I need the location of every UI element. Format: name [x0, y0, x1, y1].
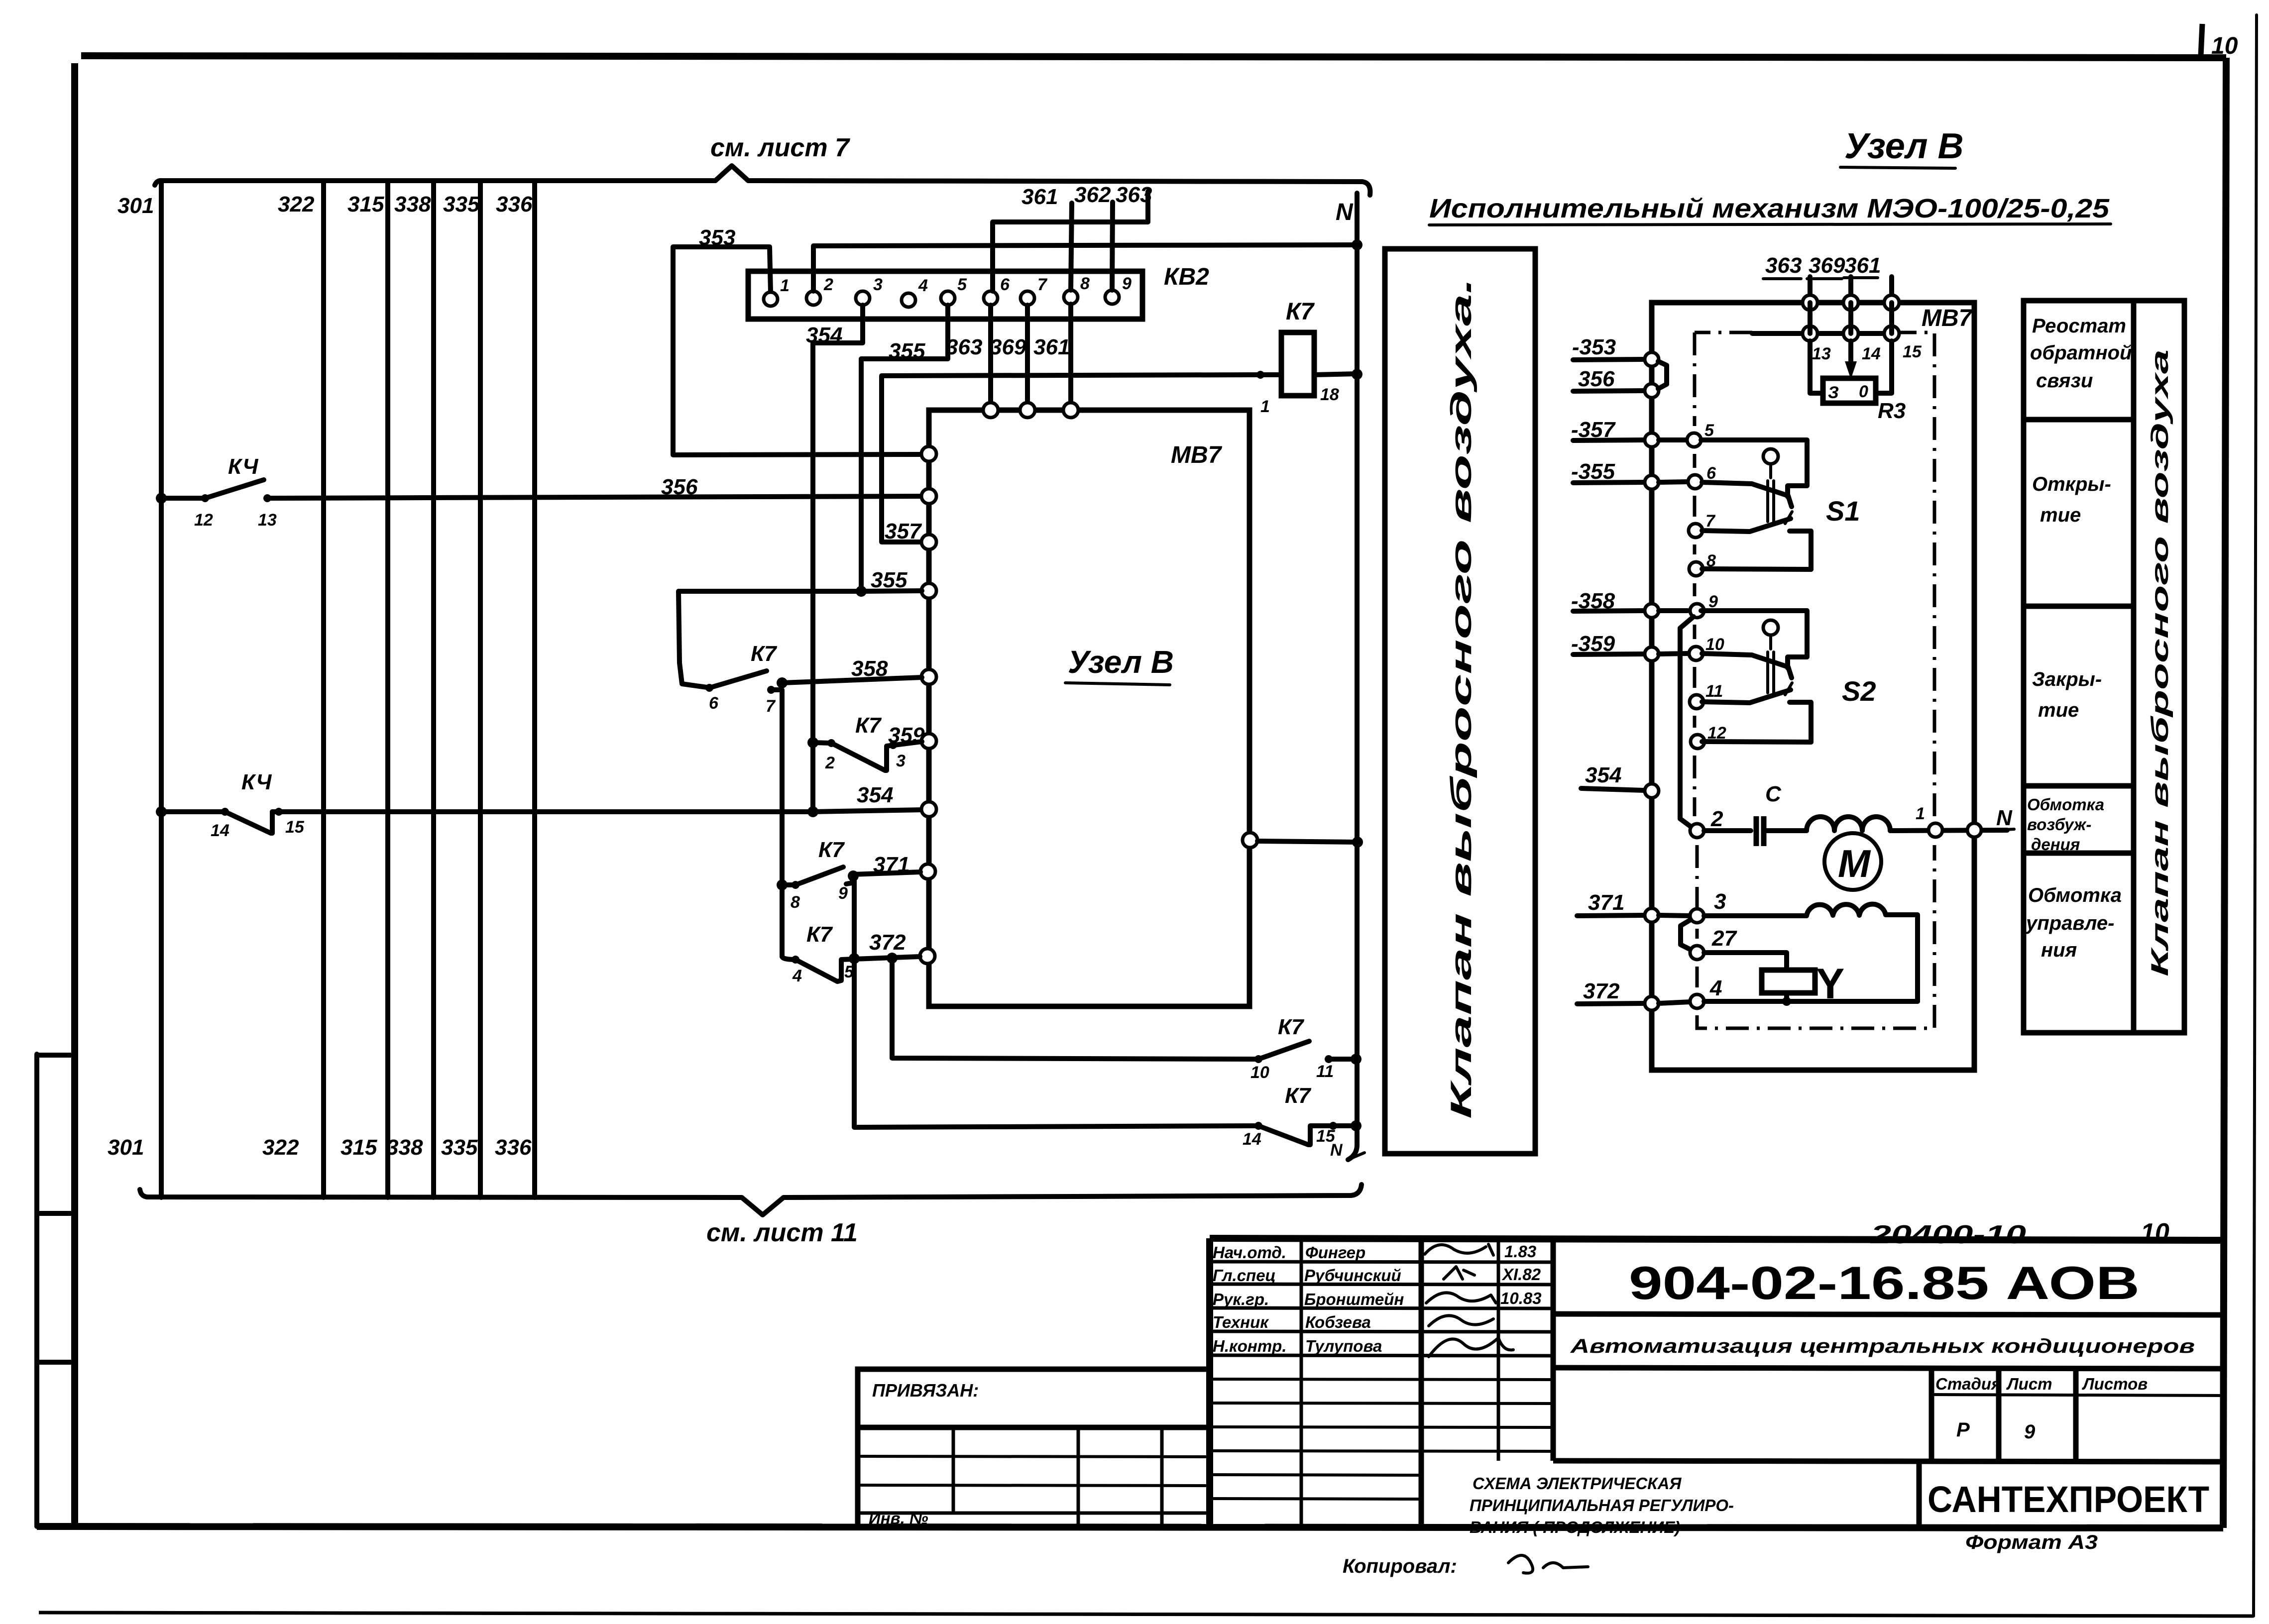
title block signature grid columns: [1301, 1238, 1553, 1527]
svg-text:6: 6: [709, 694, 719, 713]
svg-text:322: 322: [278, 192, 315, 217]
svg-text:11: 11: [1705, 682, 1723, 701]
wire 369 from KB2 terminal 7 down to MB7: [1025, 305, 1030, 409]
svg-text:4: 4: [792, 967, 802, 985]
legend text Обмотка возбуждения: [2027, 795, 2104, 854]
wire 357 from MB7 terminal up and right to relay K7 pin 1: [882, 375, 1260, 543]
wire row 13-14-15 on dash-dot top edge: [1752, 303, 1922, 363]
svg-text:315: 315: [347, 192, 384, 217]
svg-text:N: N: [1330, 1141, 1343, 1160]
brace "см. лист 7": [155, 133, 1370, 195]
signature row Гл.спец Рубчинский: [1213, 1265, 1541, 1285]
svg-text:5: 5: [844, 963, 854, 981]
svg-text:К7: К7: [806, 922, 833, 947]
motor M: [1824, 833, 1881, 890]
wire from KB2 terminal 2 to N: [813, 245, 1357, 291]
KB2 terminal 7: [1021, 275, 1048, 305]
cable stub 371: [1577, 890, 1690, 922]
svg-text:см. лист 7: см. лист 7: [710, 133, 850, 162]
wire 358: [777, 656, 922, 688]
svg-text:Лист: Лист: [2006, 1375, 2052, 1393]
note Копировал: [1343, 1555, 1588, 1577]
svg-text:301: 301: [117, 194, 154, 218]
svg-text:9: 9: [1122, 274, 1132, 293]
MB7 terminal 353: [921, 446, 936, 461]
legend text Закрытие: [2032, 668, 2102, 721]
wires 363 369 361 stubs above mechanism: [1763, 253, 1892, 299]
switch pin 7: [1689, 512, 1716, 538]
svg-text:369: 369: [1809, 253, 1845, 278]
svg-text:356: 356: [1578, 367, 1615, 391]
svg-text:336: 336: [496, 192, 533, 217]
svg-text:Клапан выбросного воздуха.: Клапан выбросного воздуха.: [1445, 278, 1477, 1119]
KB2 terminal 4: [902, 276, 928, 307]
cable stub -359: [1571, 632, 1688, 661]
svg-text:4: 4: [1709, 976, 1722, 1000]
contact K7 (pins 10-11) lower: [1250, 1015, 1356, 1082]
svg-text:Клапан выбросного воздуха: Клапан выбросного воздуха: [2147, 349, 2173, 976]
limit switch S2: [1701, 611, 1876, 742]
svg-text:5: 5: [957, 275, 967, 294]
KB2 terminal 1: [764, 276, 790, 306]
svg-text:Исполнительный механизм МЭО-10: Исполнительный механизм МЭО-100/25-0,25: [1429, 194, 2110, 223]
brake electromagnet Y: [1762, 960, 1844, 1008]
bus rail 335: [478, 182, 483, 1197]
bus rail 338: [431, 182, 436, 1197]
svg-text:8: 8: [791, 893, 800, 912]
svg-text:354: 354: [857, 783, 893, 807]
wire 355 from KB2 terminal 5: [861, 305, 948, 591]
svg-text:КЧ: КЧ: [228, 454, 258, 479]
svg-text:МВ7: МВ7: [1171, 442, 1223, 468]
svg-text:связи: связи: [2036, 370, 2093, 392]
KB2 terminal 2: [806, 275, 833, 305]
svg-text:ния: ния: [2041, 939, 2077, 961]
svg-text:1.83: 1.83: [1504, 1242, 1536, 1261]
svg-text:9: 9: [2024, 1421, 2036, 1443]
svg-text:управле-: управле-: [2025, 912, 2114, 934]
switch pin 11: [1690, 682, 1723, 709]
MB7 terminal 358: [921, 669, 936, 684]
left margin column with fold ticks: [37, 1054, 74, 1526]
bus rail 315: [385, 182, 390, 1197]
MB7 right edge terminal to N: [1243, 833, 1358, 848]
svg-text:S2: S2: [1842, 675, 1876, 707]
node 1: [1916, 804, 1942, 837]
sheet number 10 top right with tick: [2201, 24, 2238, 59]
top wire 361 with hook to terminal 6: [993, 185, 1148, 291]
svg-text:904-02-16.85 АОВ: 904-02-16.85 АОВ: [1629, 1257, 2140, 1309]
KB2 terminal 6: [984, 275, 1010, 305]
svg-text:7: 7: [1037, 275, 1048, 294]
svg-text:дения: дения: [2031, 835, 2080, 854]
schema name cell: [1470, 1461, 2223, 1536]
svg-text:356: 356: [661, 475, 698, 499]
svg-text:Закры-: Закры-: [2032, 668, 2102, 690]
MB7 terminal 354: [921, 802, 936, 817]
rail labels bottom: [108, 1135, 532, 1160]
svg-text:САНТЕХПРОЕКТ: САНТЕХПРОЕКТ: [1928, 1479, 2209, 1520]
labels 363 369 361 under KB2: [946, 335, 1070, 359]
svg-text:Нач.отд.: Нач.отд.: [1213, 1243, 1286, 1262]
svg-text:N: N: [1336, 199, 1354, 225]
svg-text:7: 7: [766, 697, 776, 716]
signature row Н.контр. Тулупова: [1213, 1337, 1513, 1357]
cable stub 354: [1581, 763, 1659, 798]
svg-text:ПРИНЦИПИАЛЬНАЯ РЕГУЛИРО-: ПРИНЦИПИАЛЬНАЯ РЕГУЛИРО-: [1470, 1496, 1734, 1515]
svg-text:XI.82: XI.82: [1501, 1265, 1541, 1284]
Привязан box: [858, 1369, 1210, 1527]
wire from winding to bottom: [1886, 915, 1918, 1001]
svg-text:20400-10: 20400-10: [1870, 1220, 2027, 1249]
motor terminal 4: [1690, 976, 1918, 1008]
svg-text:Бронштейн: Бронштейн: [1304, 1290, 1404, 1308]
svg-text:9: 9: [838, 884, 848, 903]
switch pin 8: [1689, 551, 1716, 576]
svg-text:11: 11: [1316, 1062, 1334, 1081]
svg-text:возбуж-: возбуж-: [2027, 815, 2091, 834]
svg-text:Стадия: Стадия: [1935, 1375, 2001, 1393]
svg-text:ВАНИЯ ( ПРОДОЛЖЕНИЕ): ВАНИЯ ( ПРОДОЛЖЕНИЕ): [1470, 1518, 1680, 1536]
limit switch S1: [1701, 440, 1860, 569]
MB7 top terminals (363/369/361): [983, 403, 1078, 418]
svg-text:4: 4: [918, 276, 928, 295]
svg-text:10: 10: [1705, 635, 1724, 654]
svg-text:К7: К7: [1285, 1083, 1312, 1108]
svg-text:тие: тие: [2040, 504, 2081, 526]
cable stub 356: [1573, 367, 1659, 398]
svg-text:R3: R3: [1878, 399, 1906, 423]
title block outer: [1210, 1238, 2223, 1527]
rheostat R3 with wiper arrow from 14: [1810, 341, 1906, 423]
svg-text:335: 335: [441, 1135, 478, 1160]
title Узел В (right section): [1840, 126, 1964, 168]
svg-text:13: 13: [258, 511, 277, 530]
signature row Нач.отд Фингер: [1213, 1242, 1536, 1262]
contact K7 (pins 2-3) on wire 359: [807, 713, 925, 772]
top wire 363 to terminal 9: [1112, 183, 1152, 290]
switch pin 9: [1690, 592, 1718, 618]
svg-text:1: 1: [780, 276, 790, 295]
svg-text:363: 363: [1116, 183, 1152, 207]
svg-text:372: 372: [1583, 979, 1620, 1003]
svg-text:Инв. №: Инв. №: [869, 1509, 928, 1527]
terminal block KB2: [748, 264, 1209, 319]
contact K7 (pins 8-9) on wire 371: [777, 838, 1257, 1127]
MB7 terminal 371: [920, 864, 935, 879]
svg-text:372: 372: [869, 930, 906, 955]
switch pin 10: [1689, 635, 1724, 660]
KB2 terminal 5: [941, 275, 967, 305]
wire 355 into MB7 with junction: [856, 568, 922, 597]
svg-text:315: 315: [340, 1135, 377, 1160]
title block signature rows: [1210, 1262, 1553, 1499]
svg-text:Р: Р: [1956, 1419, 1970, 1441]
svg-text:Обмотка: Обмотка: [2027, 795, 2104, 814]
cable stub -353: [1572, 335, 1659, 366]
svg-text:2: 2: [823, 275, 833, 294]
contact K7 (pins 4-5) on wire 372: [782, 922, 1257, 1059]
signature row Рук.гр. Бронштейн: [1213, 1289, 1542, 1308]
junction circles on mechanism box top edge: [1803, 295, 1899, 310]
svg-text:1: 1: [1260, 397, 1270, 416]
svg-text:336: 336: [495, 1135, 532, 1160]
svg-text:Обмотка: Обмотка: [2028, 884, 2122, 906]
svg-text:К7: К7: [855, 713, 882, 738]
svg-text:361: 361: [1021, 185, 1058, 209]
svg-text:362: 362: [1074, 183, 1111, 207]
outer paper border right: [2254, 15, 2257, 1616]
svg-text:З: З: [1828, 383, 1839, 402]
svg-text:338: 338: [386, 1135, 423, 1160]
control winding (coil): [1807, 904, 1886, 916]
Стадия Лист Листов header: [1931, 1368, 2223, 1461]
KB2 terminal 8: [1064, 274, 1090, 304]
svg-text:Формат А3: Формат А3: [1965, 1531, 2098, 1553]
contact K7 (pins 6-7): [679, 591, 861, 957]
svg-text:Рук.гр.: Рук.гр.: [1213, 1290, 1269, 1308]
legend text Открытие: [2032, 473, 2111, 526]
svg-text:К7: К7: [1278, 1015, 1305, 1039]
right legend table: [2024, 301, 2184, 1033]
cable stub 372: [1577, 979, 1690, 1010]
svg-text:361: 361: [1033, 335, 1070, 359]
wire 363 from KB2 terminal 6 down to MB7: [988, 305, 993, 409]
mechanism outer box MB7: [1652, 303, 1974, 1070]
svg-text:Автоматизация центральных ко: Автоматизация центральных кондиционеров: [1570, 1335, 2195, 1357]
box Клапан выбросного воздуха (left tall box): [1385, 249, 1535, 1154]
svg-text:12: 12: [194, 511, 213, 530]
svg-text:2: 2: [825, 754, 835, 772]
svg-text:СХЕМА ЭЛЕКТРИЧЕСКАЯ: СХЕМА ЭЛЕКТРИЧЕСКАЯ: [1473, 1474, 1682, 1493]
cable stub -355: [1571, 459, 1688, 489]
svg-text:27: 27: [1711, 926, 1737, 951]
svg-text:Листов: Листов: [2082, 1375, 2148, 1393]
svg-text:М: М: [1838, 842, 1871, 885]
signature row Техник Кобзева: [1213, 1313, 1493, 1331]
svg-text:0: 0: [1859, 382, 1868, 401]
wire 354 from KB2 terminal 3: [806, 305, 863, 812]
svg-text:301: 301: [108, 1135, 144, 1160]
relay coil K7: [1256, 299, 1357, 416]
svg-text:361: 361: [1844, 253, 1881, 278]
svg-text:18: 18: [1320, 385, 1339, 404]
cable stub -357: [1571, 418, 1688, 447]
svg-text:14: 14: [1862, 344, 1881, 363]
project title Автоматизация центральных кондиционеров: [1553, 1335, 2223, 1369]
svg-text:Рубчинский: Рубчинский: [1304, 1266, 1401, 1285]
document code 904-02-16.85 АОВ: [1553, 1257, 2223, 1315]
contact K4 (pins 12-13) on wire 356: [156, 454, 922, 530]
mechanism dash-dot enclosure: [1695, 332, 1934, 1028]
KB2 terminal 9: [1105, 274, 1132, 304]
svg-text:15: 15: [1903, 342, 1922, 361]
svg-text:15: 15: [285, 818, 305, 837]
svg-text:Фингер: Фингер: [1305, 1243, 1365, 1262]
jumper 353-356: [1658, 361, 1667, 389]
svg-text:10: 10: [1250, 1063, 1269, 1082]
svg-text:Кобзева: Кобзева: [1305, 1313, 1371, 1331]
motor terminal 27: [1690, 926, 1787, 970]
svg-text:354: 354: [1585, 763, 1621, 787]
svg-text:N: N: [1996, 806, 2013, 830]
svg-text:3: 3: [896, 752, 906, 770]
MB7 terminal 357: [921, 535, 936, 549]
svg-text:Копировал:: Копировал:: [1343, 1555, 1457, 1577]
svg-text:см. лист 11: см. лист 11: [706, 1218, 858, 1247]
bus rail 322: [321, 182, 326, 1197]
KB2 terminal 3: [856, 275, 883, 305]
switch pin 12: [1691, 724, 1726, 749]
svg-text:обратной: обратной: [2030, 342, 2132, 364]
capacitor C: [1704, 782, 1807, 846]
svg-text:КЧ: КЧ: [241, 770, 272, 794]
wire 361 from KB2 terminal 8 down to MB7: [1068, 304, 1073, 409]
svg-text:369: 369: [990, 335, 1026, 359]
svg-text:371: 371: [1588, 890, 1624, 915]
svg-text:13: 13: [1812, 344, 1831, 363]
svg-text:3: 3: [1714, 889, 1726, 914]
svg-text:3: 3: [873, 275, 883, 294]
legend text Обмотка управления: [2025, 884, 2122, 961]
MB7 terminal 355: [921, 583, 936, 598]
svg-text:1: 1: [1916, 804, 1925, 823]
svg-text:МВ7: МВ7: [1922, 305, 1973, 331]
svg-text:Реостат: Реостат: [2032, 315, 2126, 337]
svg-text:5: 5: [1704, 421, 1714, 440]
wire coil to node 1 and N: [1890, 830, 2007, 831]
svg-text:S1: S1: [1826, 495, 1860, 527]
motor terminal 3: [1690, 889, 1807, 923]
svg-text:Узел В: Узел В: [1844, 126, 1964, 166]
switch pin 5: [1687, 421, 1714, 447]
svg-text:Техник: Техник: [1213, 1313, 1269, 1331]
svg-text:К7: К7: [818, 838, 845, 862]
MB7 terminal 359: [921, 734, 936, 749]
bus rail 336: [532, 182, 537, 1197]
svg-text:Узел В: Узел В: [1068, 644, 1174, 680]
svg-text:7: 7: [1705, 512, 1716, 531]
title Исполнительный механизм МЭО-100/25-0,25: [1429, 194, 2111, 225]
brace "см. лист 11": [140, 1185, 1361, 1247]
svg-text:338: 338: [394, 192, 431, 217]
wire from pin 9 down to motor terminal 2: [1680, 617, 1694, 827]
svg-text:КВ2: КВ2: [1164, 264, 1209, 290]
svg-text:Откры-: Откры-: [2032, 473, 2111, 495]
MB7 terminal 356: [921, 489, 936, 504]
rail labels top: [117, 192, 533, 218]
contact K7 (pins 14-15) lowest: [1243, 1083, 1356, 1160]
svg-text:К7: К7: [1286, 299, 1315, 325]
svg-text:Тулупова: Тулупова: [1305, 1337, 1382, 1355]
box MB7 (Узел В): [929, 410, 1249, 1006]
switch pin 6: [1688, 464, 1716, 489]
svg-text:10: 10: [2211, 33, 2238, 59]
svg-text:ПРИВЯЗАН:: ПРИВЯЗАН:: [872, 1380, 979, 1401]
jumper 3-27: [1681, 920, 1691, 950]
svg-text:6: 6: [1000, 275, 1010, 294]
svg-text:8: 8: [1080, 274, 1090, 293]
wire 353 loop from KB2 terminal 1 to MB7: [673, 225, 922, 455]
stator winding (coil): [1807, 817, 1890, 831]
top wire 362 to terminal 8: [1071, 183, 1111, 290]
svg-text:14: 14: [211, 821, 229, 840]
svg-text:C: C: [1765, 782, 1782, 806]
MB7 terminal 372: [920, 949, 935, 964]
motor terminal 2: [1690, 807, 1723, 838]
node N vertical line: [1336, 193, 1364, 1160]
svg-text:К7: К7: [751, 642, 778, 666]
outer paper border bottom: [39, 1613, 2254, 1616]
svg-text:322: 322: [262, 1135, 299, 1160]
contact K4 (pins 14-15) on wire 354: [156, 770, 924, 840]
bus rail 301: [159, 182, 164, 1197]
svg-text:335: 335: [443, 192, 480, 217]
wire 354 junction into MB7: [807, 783, 893, 817]
svg-text:Гл.спец: Гл.спец: [1213, 1266, 1276, 1285]
svg-text:2: 2: [1710, 807, 1723, 831]
svg-text:363: 363: [946, 335, 982, 359]
svg-text:Н.контр.: Н.контр.: [1213, 1337, 1286, 1355]
svg-text:363: 363: [1765, 253, 1802, 278]
svg-text:6: 6: [1706, 464, 1716, 483]
legend text Реостат обратной связи: [2030, 315, 2132, 392]
svg-text:тие: тие: [2038, 699, 2079, 721]
svg-text:-353: -353: [1572, 335, 1616, 359]
svg-text:14: 14: [1243, 1130, 1261, 1149]
node N (motor): [1967, 806, 2014, 837]
svg-text:10.83: 10.83: [1500, 1289, 1542, 1307]
cable stub -358: [1571, 589, 1688, 618]
